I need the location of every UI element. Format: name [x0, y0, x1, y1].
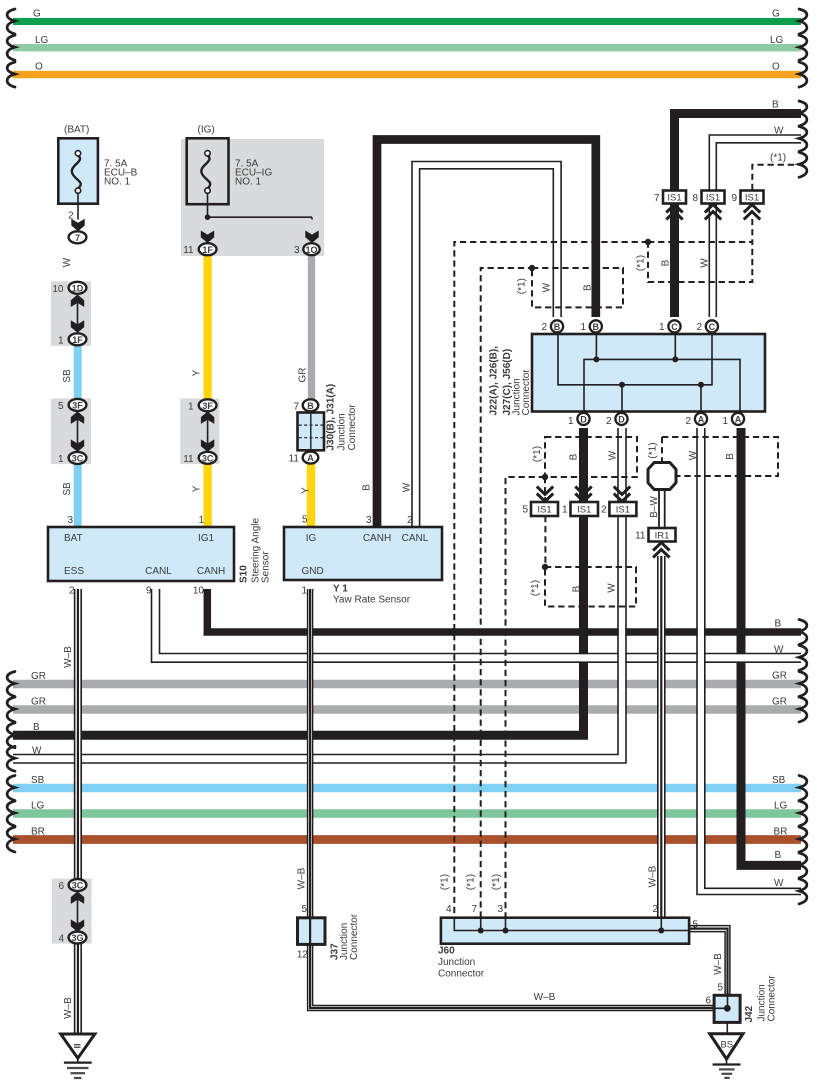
svg-text:(*1): (*1): [532, 446, 543, 462]
svg-text:B: B: [775, 850, 782, 861]
svg-text:GND: GND: [302, 566, 324, 577]
svg-text:IG1: IG1: [198, 533, 215, 544]
svg-text:O: O: [772, 62, 780, 73]
svg-text:GR: GR: [31, 697, 46, 708]
svg-text:11: 11: [289, 454, 300, 465]
J22 pin 2B: [551, 320, 563, 332]
svg-text:1: 1: [562, 505, 568, 516]
shield loop dashed around B/W at J22 B-C pins right: [648, 242, 752, 282]
svg-text:3: 3: [67, 515, 73, 526]
shield loop dashed right around W/B at J22 A pins: [662, 437, 778, 476]
svg-text:2: 2: [606, 416, 612, 427]
svg-text:1: 1: [188, 401, 194, 412]
shield connector IS1 no5: [531, 487, 558, 517]
wire B top right to IS1-7 and J22 1C: [675, 114, 802, 318]
svg-text:B: B: [725, 453, 736, 460]
wire W-B Y1 GND down through J37 to J42 pin 6: [308, 589, 714, 1011]
connector pair arrows 3F-3C middle: [201, 411, 214, 452]
svg-text:9: 9: [731, 193, 737, 204]
fuse ECU-B box: [58, 138, 98, 203]
svg-text:1: 1: [722, 416, 728, 427]
wire W J22 2A to right bus W: [697, 428, 801, 895]
svg-text:Junction: Junction: [438, 957, 475, 968]
connector gray box 3F/3C middle: [180, 398, 219, 464]
wire W S10 CANL to right bus W: [152, 589, 802, 662]
svg-text:B: B: [33, 722, 40, 733]
relay block IR1: [649, 528, 676, 558]
wire W-B connector 3G down to ground II: [75, 944, 82, 1034]
wire GR 1O to J30 pin B: [308, 256, 315, 400]
svg-text:W: W: [607, 583, 618, 593]
svg-text:1: 1: [301, 586, 307, 597]
shield wire (*1) dashed into IS1-5: [544, 477, 546, 502]
shield connector IS1 no7: [663, 191, 686, 220]
svg-text:3F: 3F: [72, 400, 83, 410]
svg-text:NO. 1: NO. 1: [235, 177, 262, 188]
svg-text:3F: 3F: [202, 401, 213, 411]
shield loop dashed around B/W below J22 D pins: [545, 437, 637, 477]
svg-text:4: 4: [58, 934, 64, 945]
svg-text:W–B: W–B: [63, 997, 74, 1019]
connector oval 3F left: [69, 399, 87, 411]
svg-text:1: 1: [568, 416, 574, 427]
noise filter octagon: [648, 463, 676, 490]
svg-text:IG: IG: [306, 533, 317, 544]
svg-text:2: 2: [601, 505, 607, 516]
svg-text:W: W: [774, 878, 784, 889]
ground II triangle: [61, 1034, 95, 1078]
svg-text:2: 2: [685, 416, 691, 427]
svg-text:LG: LG: [31, 801, 45, 812]
svg-text:7: 7: [654, 193, 660, 204]
J22 pin 2D: [615, 413, 627, 425]
svg-text:IS1: IS1: [667, 193, 681, 204]
svg-text:1: 1: [58, 335, 64, 346]
svg-text:W: W: [402, 482, 413, 492]
svg-text:J30(B), J31(A): J30(B), J31(A): [326, 384, 337, 451]
connector gray box 3C/3G bottom: [52, 879, 92, 944]
svg-text:(*1): (*1): [530, 580, 541, 596]
svg-text:(*1): (*1): [491, 874, 502, 890]
connector oval 1O: [303, 243, 319, 255]
svg-text:Yaw Rate Sensor: Yaw Rate Sensor: [333, 595, 411, 606]
svg-text:2: 2: [541, 322, 547, 333]
shield connector IS1 no8: [702, 191, 725, 220]
connector oval 3C bottom: [69, 879, 87, 891]
svg-text:IS1: IS1: [577, 505, 591, 516]
svg-text:5: 5: [302, 515, 308, 526]
svg-text:J42: J42: [744, 1005, 755, 1022]
connector gray box 3F/3C left: [51, 398, 91, 464]
fuse ECU-IG box: [187, 138, 229, 204]
svg-text:1: 1: [58, 454, 64, 465]
svg-text:GR: GR: [31, 671, 46, 682]
wire bus G: [13, 18, 801, 25]
wire B-W octagon to IR1: [659, 490, 665, 529]
junction connector J60 box: [441, 918, 689, 944]
svg-text:CANL: CANL: [145, 566, 172, 577]
svg-text:BR: BR: [774, 827, 788, 838]
svg-text:3C: 3C: [202, 453, 214, 463]
shield loop dashed lower around B/W: [545, 567, 636, 607]
connector oval 3C left: [69, 452, 87, 464]
svg-text:B: B: [775, 619, 782, 630]
svg-text:5: 5: [717, 983, 723, 994]
wire W-B S10 ESS down to connector 3C: [75, 589, 82, 879]
svg-text:SB: SB: [62, 482, 73, 496]
connector oval 1F left: [69, 333, 87, 345]
svg-text:GR: GR: [772, 697, 787, 708]
connector oval 3F middle: [199, 399, 217, 411]
connector oval 3G: [69, 932, 87, 944]
svg-text:10: 10: [52, 284, 64, 295]
fuse ECU-B symbol: [72, 151, 81, 220]
shield wire (*1) dashed long run to J60 pin 4: [454, 242, 648, 918]
svg-text:2: 2: [652, 904, 658, 915]
connector gray box 1D/1F: [51, 281, 91, 346]
continuation squiggles left edge: [7, 9, 15, 34]
junction connector J30/J31 box: [298, 413, 325, 451]
svg-text:5: 5: [301, 904, 307, 915]
svg-text:W–B: W–B: [63, 646, 74, 668]
shield loop dashed around W/B at J22 B pins left: [532, 268, 623, 307]
svg-text:6: 6: [705, 996, 711, 1007]
svg-text:B: B: [569, 453, 580, 460]
svg-text:W: W: [62, 257, 73, 267]
svg-text:Connector: Connector: [349, 913, 360, 960]
wire B J22 1D down to left bus B: [13, 428, 584, 735]
svg-text:IS1: IS1: [745, 193, 759, 204]
svg-text:3: 3: [366, 515, 372, 526]
svg-text:1F: 1F: [72, 335, 83, 345]
svg-text:W: W: [688, 450, 699, 460]
wire B Y1 CANH up over to J22 1B: [377, 140, 596, 528]
svg-text:IS1: IS1: [616, 505, 630, 516]
svg-text:B: B: [572, 585, 583, 592]
svg-text:ESS: ESS: [64, 566, 84, 577]
svg-text:G: G: [33, 9, 41, 20]
svg-text:NO. 1: NO. 1: [104, 177, 131, 188]
svg-text:3C: 3C: [72, 881, 84, 891]
svg-text:G: G: [772, 9, 780, 20]
J22 pin 2C: [706, 320, 718, 332]
svg-text:Y 1: Y 1: [333, 584, 348, 595]
svg-text:8: 8: [692, 193, 698, 204]
svg-text:GR: GR: [772, 671, 787, 682]
svg-text:SB: SB: [62, 369, 73, 383]
svg-text:LG: LG: [774, 801, 788, 812]
arrow into connector 7: [71, 219, 84, 232]
connector oval 1D: [69, 282, 87, 294]
svg-text:5: 5: [522, 505, 528, 516]
svg-text:Connector: Connector: [521, 369, 532, 416]
svg-text:2: 2: [68, 211, 74, 222]
svg-text:W–B: W–B: [713, 953, 724, 975]
svg-text:7: 7: [471, 904, 477, 915]
shield wire (*1) dashed into octagon noise filter: [661, 437, 663, 462]
svg-text:(*1): (*1): [770, 153, 786, 164]
fuse ECU-IG symbol: [201, 151, 312, 220]
svg-text:2: 2: [407, 515, 413, 526]
svg-text:B: B: [661, 259, 672, 266]
svg-text:IR1: IR1: [655, 530, 670, 541]
svg-text:W–B: W–B: [648, 865, 659, 887]
svg-text:LG: LG: [770, 35, 784, 46]
svg-text:W: W: [32, 746, 42, 757]
svg-text:1D: 1D: [72, 283, 84, 293]
svg-text:9: 9: [146, 586, 152, 597]
svg-text:(*1): (*1): [648, 442, 659, 458]
svg-text:(BAT): (BAT): [64, 125, 89, 136]
yaw rate sensor Y1 box: [284, 527, 442, 580]
svg-text:BR: BR: [31, 827, 45, 838]
svg-text:B–W: B–W: [649, 496, 660, 518]
connector oval A of J30: [303, 452, 319, 464]
svg-text:BAT: BAT: [64, 533, 83, 544]
svg-text:(IG): (IG): [198, 125, 215, 136]
wire SB 3C to S10 BAT: [74, 464, 82, 528]
arrow into connector 1O: [305, 231, 318, 244]
svg-text:B: B: [307, 401, 314, 411]
svg-text:CANL: CANL: [402, 533, 429, 544]
connector pair arrows 1D-1F: [71, 295, 84, 333]
svg-text:11: 11: [183, 454, 194, 465]
svg-text:7: 7: [75, 233, 80, 243]
junction dot dashed loop top right: [645, 239, 651, 245]
shield connector IS1 no2: [609, 487, 636, 517]
svg-text:6: 6: [58, 881, 64, 892]
shield wire (*1) dashed IS1-5 to lower loop: [544, 516, 546, 567]
svg-text:(*1): (*1): [466, 874, 477, 890]
wire B S10 CANH down to right bus B: [207, 589, 801, 632]
svg-text:3: 3: [497, 904, 503, 915]
svg-text:W: W: [542, 282, 553, 292]
wire Y 1F to 3F: [203, 256, 211, 400]
wire bus O: [13, 71, 801, 78]
junction dot dashed mid loop: [542, 474, 548, 480]
junction dot dashed lower loop: [542, 564, 548, 570]
svg-text:5: 5: [693, 920, 699, 931]
junction connector J37 box: [298, 918, 326, 945]
svg-text:3G: 3G: [71, 933, 83, 943]
junction dot dashed loop left: [529, 265, 535, 271]
svg-text:2: 2: [696, 322, 702, 333]
svg-text:IS1: IS1: [706, 193, 720, 204]
shield wire (*1) dashed to J60 pin 7: [481, 268, 532, 918]
wire Y J30 pin A to Y1 IG: [307, 464, 315, 527]
svg-text:W–B: W–B: [297, 867, 308, 889]
svg-text:1: 1: [659, 322, 665, 333]
J22 pin 2A: [695, 413, 707, 425]
continuation squiggles right edge: [799, 9, 807, 34]
svg-text:SB: SB: [772, 775, 786, 786]
svg-text:W: W: [774, 126, 784, 137]
wire SB fuse to 1D gap filled by W; SB segments left column: [74, 345, 82, 399]
J22 pin 1C: [668, 320, 680, 332]
junction connector J42 box: [714, 995, 740, 1033]
svg-text:1F: 1F: [202, 245, 213, 255]
J22 pin 1A: [732, 413, 744, 425]
wire W-B J60 pin 5 to J42 pin 5: [689, 926, 730, 996]
connector pair arrows 3C-3G: [71, 891, 84, 932]
svg-text:W: W: [700, 258, 711, 268]
svg-text:Junction: Junction: [337, 413, 348, 450]
svg-text:10: 10: [193, 586, 205, 597]
fuse block gray area (IG): [181, 139, 324, 256]
connector oval 7: [69, 231, 87, 243]
svg-text:D: D: [580, 414, 587, 424]
wire Y 3C to S10 IG1: [203, 464, 211, 527]
connector oval 3C middle: [199, 452, 217, 464]
svg-text:SB: SB: [31, 775, 45, 786]
svg-text:GR: GR: [298, 368, 309, 383]
svg-text:2: 2: [69, 586, 75, 597]
wire bus BR: [13, 835, 801, 844]
shield wire (*1) dashed to J60 pin 3: [506, 477, 546, 918]
svg-text:(*1): (*1): [517, 278, 528, 294]
shield wire (*1) dashed from IS1-9 down: [751, 219, 753, 242]
svg-text:CANH: CANH: [363, 533, 391, 544]
svg-text:A: A: [307, 453, 314, 463]
shield wire (*1) dashed top right to edge: [752, 165, 801, 190]
arrow into connector 1F: [201, 231, 214, 244]
svg-text:Connector: Connector: [347, 404, 358, 451]
wire bus LG middle: [13, 809, 801, 818]
svg-text:3C: 3C: [72, 453, 84, 463]
svg-text:IS1: IS1: [537, 505, 551, 516]
svg-text:J22(A), J26(B),: J22(A), J26(B),: [489, 346, 500, 416]
svg-text:1: 1: [198, 515, 204, 526]
svg-text:11: 11: [183, 245, 194, 256]
svg-text:C: C: [671, 322, 678, 332]
svg-text:1: 1: [580, 322, 586, 333]
svg-text:Connector: Connector: [767, 975, 778, 1022]
wire W Y1 CANL up over to J22 2B: [412, 162, 561, 528]
svg-text:W: W: [608, 450, 619, 460]
J22 pin 1B: [590, 320, 602, 332]
junction connector J22 box: [532, 334, 765, 412]
svg-text:C: C: [709, 322, 716, 332]
svg-text:D: D: [618, 414, 625, 424]
svg-text:CANH: CANH: [197, 566, 225, 577]
svg-text:Y: Y: [192, 485, 203, 492]
wire bus SB: [13, 784, 801, 793]
svg-text:O: O: [35, 62, 43, 73]
svg-text:5: 5: [58, 401, 64, 412]
svg-text:B: B: [554, 322, 561, 332]
connector oval B of J30: [303, 399, 319, 411]
wire W top right to IS1-8 and J22 2C: [709, 135, 801, 317]
svg-text:Y: Y: [192, 369, 203, 376]
svg-text:4: 4: [446, 904, 452, 915]
wire W-B IR1 down to J60 pin 2: [658, 556, 665, 918]
svg-text:3: 3: [294, 245, 300, 256]
svg-text:B: B: [772, 100, 779, 111]
svg-text:(*1): (*1): [440, 874, 451, 890]
shield connector IS1 no9: [741, 191, 764, 220]
shield connector IS1 no1: [571, 487, 599, 517]
svg-text:LG: LG: [35, 35, 49, 46]
svg-text:12: 12: [297, 950, 309, 961]
J22 pin 1D: [577, 413, 589, 425]
wire bus LG top: [13, 44, 801, 51]
svg-text:Y: Y: [301, 487, 312, 494]
svg-text:B: B: [593, 322, 600, 332]
svg-text:11: 11: [635, 531, 646, 542]
connector pair arrows 3F-3C left: [71, 411, 84, 452]
svg-text:1O: 1O: [305, 245, 317, 255]
svg-text:B: B: [583, 284, 594, 291]
svg-text:A: A: [698, 414, 705, 424]
svg-text:B: B: [362, 484, 373, 491]
svg-text:(*1): (*1): [636, 255, 647, 271]
steering angle sensor S10 box: [48, 527, 234, 581]
ground BS triangle: [710, 1034, 743, 1078]
svg-text:Sensor: Sensor: [261, 551, 272, 583]
svg-text:A: A: [735, 414, 742, 424]
svg-text:BS: BS: [720, 1040, 733, 1051]
wire B J22 1A down to right bus B: [741, 428, 801, 865]
wire bus GR upper: [13, 680, 801, 689]
svg-text:II: II: [73, 1043, 83, 1048]
svg-text:W: W: [774, 645, 784, 656]
svg-text:J60: J60: [438, 946, 455, 957]
svg-text:S10: S10: [239, 565, 250, 583]
connector oval 1F middle: [199, 243, 217, 255]
wire bus GR lower: [13, 705, 801, 714]
svg-text:W–B: W–B: [534, 992, 556, 1003]
svg-text:7: 7: [293, 401, 299, 412]
svg-text:Connector: Connector: [438, 969, 485, 980]
wire W left bus W to J22 2D via IS1-2: [13, 428, 626, 763]
